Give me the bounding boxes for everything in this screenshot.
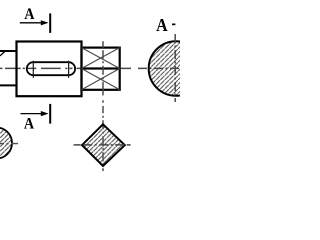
top section arrowhead xyxy=(41,20,49,25)
node A top label xyxy=(24,8,34,19)
wire vertical centerline through section and diamond dash segments xyxy=(102,41,104,171)
circle horizontal centerline xyxy=(138,67,180,69)
slot left tangent/centerline tick xyxy=(32,61,34,78)
wire main horizontal centerline dash segments xyxy=(0,67,131,69)
left shaft section top edge xyxy=(0,50,17,52)
circle vertical centerline xyxy=(174,34,176,102)
node A-A label xyxy=(156,19,167,31)
left shaft section bottom edge xyxy=(0,84,17,86)
bottom section arrowhead xyxy=(41,111,49,116)
flat-mark X bottom box diagonal 1 xyxy=(82,69,120,90)
slot right tangent/centerline tick xyxy=(68,61,70,78)
node A bottom label xyxy=(24,118,34,128)
right section middle edge xyxy=(82,67,120,69)
bottom-left section circle hatched xyxy=(0,128,12,159)
left shaft section break diagonal xyxy=(0,51,5,56)
top section cut tick xyxy=(49,13,51,33)
square section diamond hatched xyxy=(82,124,125,166)
wire top section arrow shaft xyxy=(20,22,44,24)
right squared section rectangle xyxy=(82,48,120,90)
section A-A circle hatched xyxy=(149,41,204,96)
flat-mark X bottom box diagonal 2 xyxy=(82,69,120,90)
main block rectangle xyxy=(17,42,82,97)
slot obround outline xyxy=(27,62,75,75)
wire bottom section arrow shaft xyxy=(21,113,44,115)
flat-mark X top box diagonal 2 xyxy=(82,48,120,69)
bottom-left circle horizontal centerline xyxy=(0,143,18,145)
diamond horizontal centerline xyxy=(74,144,131,146)
label dash xyxy=(172,24,175,26)
flat-mark X top box diagonal 1 xyxy=(82,48,120,69)
bottom section cut tick xyxy=(49,104,51,124)
